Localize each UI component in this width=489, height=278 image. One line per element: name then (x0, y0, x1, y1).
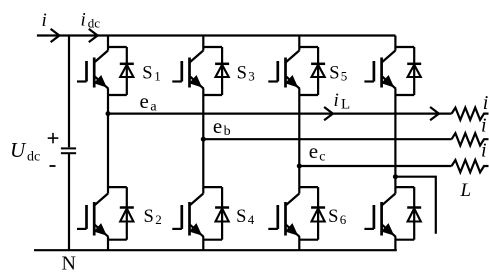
wire leg 4 midsection (394, 89, 396, 194)
svg-text:e: e (213, 114, 222, 138)
transistor V4 (upper) collector lead (382, 51, 396, 63)
svg-text:a: a (150, 100, 157, 115)
transistor V2 (upper) emitter arrowhead (189, 75, 202, 88)
transistor V1 (upper) collector lead (94, 51, 108, 63)
diode V3 (lower) vertical lead (317, 187, 319, 240)
arrow on phase a line before inductor (430, 107, 439, 120)
wire V3 (lower) top jog (299, 186, 318, 188)
transistor V4 (lower) body bar (380, 202, 383, 236)
diode V4 (lower) cathode bar (407, 206, 421, 209)
diode V4 (upper) cathode bar (407, 63, 421, 66)
transistor V2 (upper) gate lead (172, 80, 182, 82)
wire leg 1 to negative rail (107, 237, 109, 250)
transistor V2 (lower) gate bar (180, 205, 183, 229)
wire negative DC rail (34, 249, 397, 251)
diode V1 (upper) cathode bar (120, 63, 134, 66)
wire phase b output line (203, 138, 451, 140)
wire leg 3 midsection (298, 89, 300, 194)
transistor V3 (upper) gate bar (276, 61, 279, 82)
wire leg 1 from positive rail (107, 36, 109, 51)
svg-text:L: L (341, 96, 350, 112)
wire V2 (upper) bottom jog (203, 94, 222, 96)
svg-text:e: e (140, 89, 149, 113)
transistor V1 (upper) emitter arrowhead (94, 75, 107, 88)
arrow current i_dc on DC rail (89, 29, 98, 42)
wire leg 4 to negative rail (394, 237, 396, 250)
wire V1 (lower) bottom jog (108, 239, 127, 241)
svg-text:1: 1 (154, 69, 161, 84)
wire leg 2 from positive rail (202, 36, 204, 51)
transistor V3 (upper) emitter lead (286, 76, 300, 89)
diode V3 (upper) vertical lead (317, 47, 319, 95)
wire DC bus to capacitor (68, 36, 70, 148)
transistor V4 (upper) gate bar (373, 61, 376, 82)
transistor V2 (lower) emitter arrowhead (189, 223, 202, 236)
diode V2 (lower) vertical lead (221, 187, 223, 240)
diode V4 (upper) triangle (408, 65, 421, 77)
transistor V3 (lower) gate lead (268, 228, 278, 230)
svg-text:2: 2 (155, 212, 162, 227)
wire leg 2 to negative rail (202, 237, 204, 250)
transistor V1 (lower) emitter lead (94, 224, 108, 237)
wire leg 2 midsection (202, 89, 204, 194)
diode V4 (upper) vertical lead (413, 47, 415, 95)
wire V3 (lower) bottom jog (299, 239, 318, 241)
wire V4 (lower) bottom jog (395, 239, 414, 241)
transistor V1 (lower) emitter arrowhead (94, 223, 107, 236)
diode V1 (lower) triangle (120, 208, 133, 221)
transistor V3 (lower) collector lead (286, 194, 300, 206)
transistor V2 (upper) emitter lead (190, 76, 204, 89)
svg-text:i: i (481, 114, 487, 136)
arrow current i on DC rail (51, 29, 60, 42)
transistor V3 (lower) gate bar (276, 205, 279, 229)
transistor V3 (lower) emitter lead (286, 224, 300, 237)
transistor V1 (upper) gate lead (77, 80, 87, 82)
svg-text:c: c (319, 149, 325, 164)
transistor V1 (lower) gate bar (85, 205, 88, 229)
wire V2 (lower) top jog (203, 186, 222, 188)
svg-text:L: L (460, 180, 472, 201)
inductor L phase b (452, 133, 489, 145)
svg-text:i: i (42, 10, 47, 31)
transistor V3 (upper) body bar (284, 58, 287, 88)
svg-text:4: 4 (248, 212, 255, 227)
svg-text:dc: dc (88, 16, 101, 31)
svg-text:U: U (10, 138, 27, 162)
transistor V4 (lower) gate lead (364, 228, 374, 230)
wire neutral leg to load neutral (395, 177, 435, 234)
wire capacitor to negative rail (68, 154, 70, 250)
svg-text:3: 3 (248, 69, 255, 84)
wire V1 (lower) top jog (108, 186, 127, 188)
wire phase c output line (299, 165, 451, 167)
svg-text:e: e (309, 139, 318, 163)
svg-text:S: S (237, 64, 247, 84)
diode V1 (upper) vertical lead (126, 47, 128, 95)
svg-text:i: i (483, 92, 489, 114)
transistor V2 (lower) gate lead (172, 228, 182, 230)
wire V4 (lower) top jog (395, 186, 414, 188)
transistor V3 (lower) emitter arrowhead (285, 223, 298, 236)
transistor V4 (lower) gate bar (373, 205, 376, 229)
node e_c junction dot (297, 164, 302, 169)
svg-text:b: b (224, 124, 231, 139)
svg-text:S: S (144, 207, 154, 227)
svg-text:S: S (328, 207, 338, 227)
svg-text:5: 5 (341, 69, 348, 84)
diode V1 (upper) triangle (120, 65, 133, 77)
svg-text:i: i (334, 90, 339, 111)
svg-text:S: S (236, 207, 246, 227)
wire leg 4 from positive rail (394, 36, 396, 51)
transistor V1 (lower) body bar (93, 202, 96, 236)
label + (capacitor polarity) (48, 137, 59, 139)
svg-text:dc: dc (27, 150, 40, 165)
diode V2 (lower) triangle (216, 208, 229, 221)
svg-text:i: i (81, 10, 86, 31)
capacitor C bottom plate (61, 152, 76, 154)
wire positive DC rail (37, 34, 396, 36)
transistor V2 (upper) gate bar (180, 61, 183, 82)
arrow i_L on phase a line (324, 107, 333, 120)
svg-text:6: 6 (340, 212, 347, 227)
svg-text:N: N (62, 252, 76, 274)
diode V4 (lower) vertical lead (413, 187, 415, 240)
diode V3 (lower) triangle (312, 208, 325, 221)
transistor V2 (lower) body bar (188, 202, 191, 236)
svg-text:i: i (481, 140, 487, 162)
transistor V4 (upper) emitter lead (382, 76, 396, 89)
transistor V3 (upper) collector lead (286, 51, 300, 63)
transistor V2 (upper) body bar (188, 58, 191, 88)
transistor V3 (lower) body bar (284, 202, 287, 236)
diode V2 (upper) cathode bar (215, 63, 229, 66)
wire phase a output line (108, 112, 452, 114)
transistor V1 (upper) gate bar (85, 61, 88, 82)
transistor V2 (lower) collector lead (190, 194, 204, 206)
transistor V4 (lower) collector lead (382, 194, 396, 206)
transistor V2 (lower) emitter lead (190, 224, 204, 237)
diode V2 (upper) vertical lead (221, 47, 223, 95)
wire V3 (upper) top jog (299, 46, 318, 48)
diode V3 (lower) cathode bar (311, 206, 325, 209)
transistor V1 (lower) gate lead (77, 228, 87, 230)
capacitor C top plate (61, 147, 76, 149)
transistor V3 (upper) gate lead (268, 80, 278, 82)
inductor L phase c (452, 160, 489, 172)
diode V4 (lower) triangle (408, 208, 421, 221)
diode V2 (upper) triangle (216, 65, 229, 77)
transistor V4 (upper) emitter arrowhead (381, 75, 394, 88)
wire leg 3 to negative rail (298, 237, 300, 250)
inductor L phase a (452, 108, 489, 120)
wire V3 (upper) bottom jog (299, 94, 318, 96)
wire leg 3 from positive rail (298, 36, 300, 51)
wire leg 1 midsection (107, 89, 109, 194)
transistor V1 (upper) emitter lead (94, 76, 108, 89)
diode V3 (upper) triangle (312, 65, 325, 77)
diode V3 (upper) cathode bar (311, 63, 325, 66)
node e_a junction dot (106, 111, 111, 116)
transistor V4 (lower) emitter arrowhead (381, 223, 394, 236)
transistor V1 (lower) collector lead (94, 194, 108, 206)
diode V1 (lower) vertical lead (126, 187, 128, 240)
svg-text:S: S (329, 64, 339, 84)
transistor V2 (upper) collector lead (190, 51, 204, 63)
svg-text:S: S (142, 64, 152, 84)
diode V1 (lower) cathode bar (120, 206, 134, 209)
wire V2 (lower) bottom jog (203, 239, 222, 241)
wire V2 (upper) top jog (203, 46, 222, 48)
wire V4 (upper) top jog (395, 46, 414, 48)
transistor V4 (lower) emitter lead (382, 224, 396, 237)
transistor V4 (upper) gate lead (364, 80, 374, 82)
wire V4 (upper) bottom jog (395, 94, 414, 96)
transistor V1 (upper) body bar (93, 58, 96, 88)
label - (capacitor polarity) (50, 165, 56, 167)
diode V2 (lower) cathode bar (215, 206, 229, 209)
node neutral leg junction dot (393, 174, 398, 179)
wire V1 (upper) bottom jog (108, 94, 127, 96)
node e_b junction dot (201, 137, 206, 142)
transistor V3 (upper) emitter arrowhead (285, 75, 298, 88)
transistor V4 (upper) body bar (380, 58, 383, 88)
wire V1 (upper) top jog (108, 46, 127, 48)
